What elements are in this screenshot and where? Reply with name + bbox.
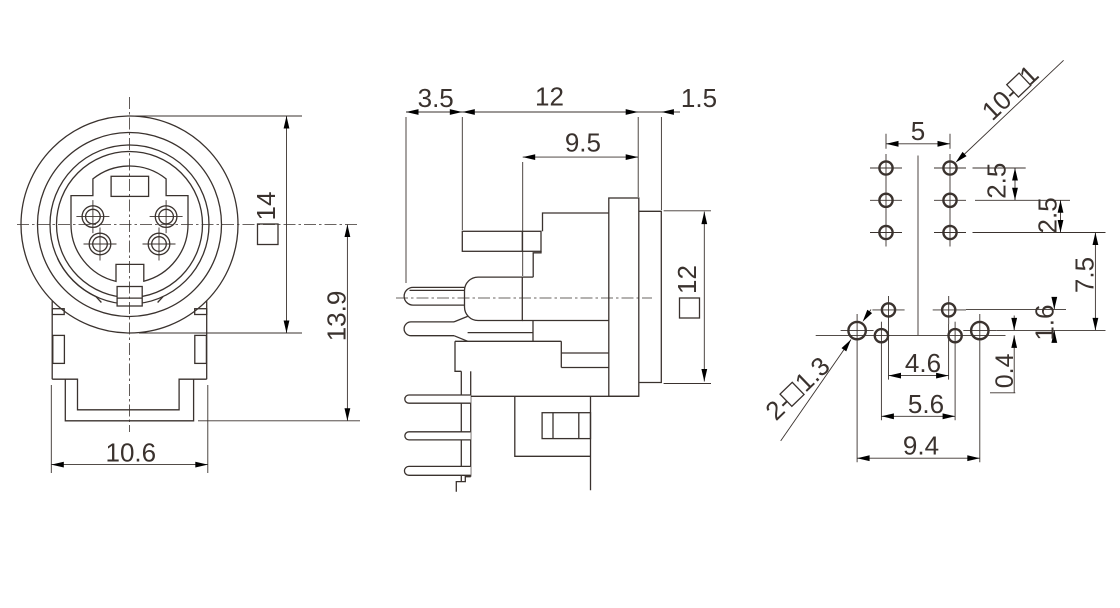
svg-text:12: 12 [535, 82, 564, 112]
housing face circle [38, 133, 222, 317]
contact pin 1 (center) [404, 287, 465, 305]
dim 14 extension bottom [139, 332, 302, 334]
hole r1c1 [870, 161, 902, 174]
svg-text:5: 5 [911, 116, 925, 146]
sleeve to body line [522, 276, 533, 278]
shield thick arc lower-left [57, 258, 96, 297]
svg-text:13.9: 13.9 [322, 291, 352, 342]
label 7.5 [1070, 257, 1100, 293]
pin 4 (top-left) [76, 200, 109, 233]
pcb pin middle [405, 432, 471, 440]
svg-text:0.4: 0.4 [991, 353, 1019, 388]
svg-text:12: 12 [672, 265, 702, 294]
1.6 upper ref line [966, 308, 1066, 310]
body mid horizontal [455, 340, 561, 342]
leader 10-sq1 [957, 60, 1063, 161]
dim 2.5a refs [973, 168, 1071, 200]
notch lower right [195, 335, 207, 363]
body vertical below sleeve [532, 321, 534, 342]
contact pin 2 [404, 322, 454, 336]
top rectangular opening [111, 176, 149, 196]
dim 5 extensions [886, 134, 950, 149]
pin 2 beam [468, 332, 533, 334]
dim 1.6 arrows [1053, 297, 1055, 342]
body bottom edge [471, 395, 639, 397]
tab divider [521, 231, 523, 251]
dim 10.6 line [51, 464, 208, 466]
latch detail verticals [561, 341, 609, 367]
body left step [455, 341, 461, 371]
bottom profile [52, 379, 207, 421]
label 1.6 [1030, 305, 1060, 341]
hole r3c2 [934, 226, 966, 239]
dim 9.4 line [857, 457, 980, 459]
label 2-sq1.3 [759, 351, 835, 426]
vertical centerline [129, 97, 131, 432]
hole r3c1 [870, 226, 902, 239]
insert outline with steps and keyway [71, 166, 188, 281]
dim 13.9 label [322, 291, 352, 342]
barrel [639, 211, 662, 382]
bottom row line [816, 334, 1006, 336]
body line below sleeve [522, 320, 609, 322]
base column left [460, 371, 462, 481]
dim 0.4 arrows [990, 316, 1015, 393]
svg-text:5.6: 5.6 [908, 389, 944, 419]
leader 2-sq1.3 [781, 340, 851, 441]
body left edge [51, 301, 53, 379]
dim 5.6 extensions [881, 350, 955, 420]
dim 7.5 line [1094, 233, 1096, 331]
dim 4.6 line [889, 375, 949, 377]
hole r2c2 [934, 194, 966, 207]
pcb pin bottom [404, 466, 470, 475]
svg-text:10.6: 10.6 [105, 438, 156, 468]
hole r1c2 [934, 161, 966, 174]
shield outer circle [50, 145, 209, 304]
hole r2c1 [870, 194, 902, 207]
hole bottom small right [949, 322, 962, 350]
svg-text:1.6: 1.6 [1030, 305, 1060, 341]
base column right [470, 371, 472, 476]
dim 9.4 extensions [857, 348, 980, 462]
mount row right line [996, 329, 1105, 331]
notch upper left [52, 309, 64, 315]
dim 2.5a line [1014, 168, 1016, 200]
block window [542, 413, 590, 439]
flange [609, 198, 639, 396]
dim 4.6 extensions [889, 324, 949, 380]
mounting hole right [963, 314, 996, 348]
extension lines [406, 117, 661, 283]
insert step segment left [96, 297, 102, 303]
dim line 3.5 / 12 / 1.5 [406, 111, 680, 113]
label 10-sq1 [976, 59, 1045, 126]
bottom latch window [117, 287, 142, 307]
dim 5 line [886, 143, 950, 145]
mounting hole left [841, 314, 874, 348]
dim line 9.5 [523, 156, 639, 158]
hole mid-left [872, 296, 904, 324]
label square-12 [672, 265, 702, 318]
dim 13.9 line [346, 225, 348, 421]
svg-text:2.5: 2.5 [982, 163, 1012, 199]
dim 12 vertical line [703, 212, 705, 382]
insert step segment right [158, 297, 164, 303]
label 0.4 [991, 353, 1019, 388]
pcb pin top [405, 395, 471, 403]
socket sleeve [465, 277, 523, 320]
svg-text:1.5: 1.5 [681, 83, 717, 113]
svg-text:4.6: 4.6 [905, 348, 941, 378]
shield inner circle [57, 152, 203, 298]
label 2.5b [1033, 197, 1063, 233]
dim 10.6 extensions [51, 385, 208, 473]
body top edge [543, 213, 609, 231]
pin 1 inner line [410, 289, 466, 291]
bottom block [515, 396, 591, 490]
pin 3 (top-right) [150, 200, 183, 233]
dim 14 label [251, 192, 281, 245]
column crosshair right [949, 154, 951, 247]
svg-text:2.5: 2.5 [1033, 197, 1063, 233]
pin 2 fork lower [454, 336, 468, 342]
dim 2.5b line [1060, 200, 1062, 232]
dim 2.5b ref [973, 232, 1106, 234]
grid center line [917, 156, 919, 336]
svg-text:9.5: 9.5 [565, 128, 601, 158]
top mounting tab [462, 231, 541, 251]
body right edge [206, 301, 208, 379]
tab step to body [533, 251, 541, 277]
svg-text:7.5: 7.5 [1070, 257, 1100, 293]
base foot [456, 477, 470, 492]
notch lower left [53, 335, 65, 363]
horizontal centerline [396, 297, 652, 299]
horizontal centerline [17, 224, 359, 226]
column crosshair left [885, 154, 887, 247]
hole bottom small left [875, 322, 888, 350]
dim 14 line [286, 116, 288, 333]
svg-text:3.5: 3.5 [418, 83, 454, 113]
label 2.5a [982, 163, 1012, 199]
outer housing circle [21, 116, 238, 333]
block window dividers [553, 413, 579, 439]
notch upper right [195, 309, 207, 315]
dim 5.6 line [881, 415, 955, 417]
svg-text:14: 14 [251, 192, 281, 221]
dim 14 extension top [134, 115, 302, 117]
pin 1 (bottom-right) [143, 228, 176, 261]
pin 2 fork upper [454, 316, 468, 322]
dim 13.9 extension bottom [198, 420, 360, 422]
svg-text:9.4: 9.4 [903, 431, 939, 461]
hole mid-right [933, 296, 966, 324]
dim 12 vertical refs [664, 211, 711, 384]
pin 2 (bottom-left) [84, 228, 117, 261]
